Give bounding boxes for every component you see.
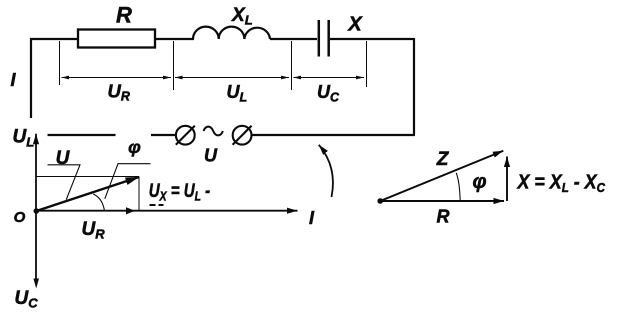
dimension UL	[175, 76, 289, 80]
svg-text:φ: φ	[472, 171, 486, 193]
svg-text:UC: UC	[317, 82, 340, 105]
tick at node B	[173, 41, 175, 90]
svg-text:UR: UR	[82, 219, 106, 242]
inductor XL	[193, 27, 270, 39]
curved annotation arrow	[319, 145, 333, 197]
dimension UR	[62, 76, 172, 80]
svg-text:I: I	[309, 208, 315, 228]
wire bottom left segment	[48, 134, 116, 136]
vector X (triangle)	[506, 157, 508, 202]
svg-text:φ: φ	[128, 137, 141, 157]
svg-text:XL: XL	[231, 5, 253, 28]
wire top-left horizontal	[30, 38, 78, 40]
tick at node A	[59, 41, 61, 85]
vector UR arrowhead	[126, 207, 135, 214]
source lamp left	[176, 126, 195, 145]
vector U	[36, 177, 139, 211]
wire left vertical	[30, 38, 32, 118]
wire source left stub	[151, 134, 176, 136]
phasor axis UC down arrow	[33, 279, 39, 289]
wire right vertical	[413, 38, 415, 135]
dimension UC	[294, 76, 365, 80]
wire bottom right segment	[252, 134, 415, 136]
vector Z (triangle)	[380, 151, 503, 201]
origin dot	[34, 208, 40, 214]
svg-text:X: X	[347, 14, 363, 36]
wire capacitor to right corner	[330, 38, 414, 40]
capacitor X plate left	[318, 20, 321, 57]
construction line vertical	[138, 177, 140, 211]
wire inductor to capacitor	[270, 38, 317, 40]
phasor axis UL vertical	[35, 134, 37, 280]
construction line horizontal	[36, 176, 139, 178]
source tilde	[204, 127, 223, 136]
svg-text:R: R	[116, 3, 132, 28]
vector R (triangle)	[380, 200, 504, 202]
tick at node C	[291, 41, 293, 90]
svg-text:O: O	[14, 209, 26, 226]
angle arc phi (phasor)	[93, 194, 104, 211]
triangle vertex dot	[377, 198, 383, 204]
angle arc phi (triangle)	[456, 173, 460, 201]
svg-text:U: U	[204, 146, 218, 166]
wire resistor to inductor	[155, 38, 194, 40]
svg-text:UR: UR	[108, 80, 130, 103]
capacitor X plate right	[327, 20, 330, 57]
svg-text:UC: UC	[15, 288, 39, 311]
svg-text:I: I	[10, 70, 16, 90]
svg-text:X = XL - XC: X = XL - XC	[517, 172, 606, 196]
svg-text:UL: UL	[13, 127, 35, 150]
svg-text:R: R	[437, 207, 450, 227]
svg-text:UL: UL	[227, 82, 248, 105]
dashes under UX	[150, 204, 164, 206]
svg-text:Z: Z	[436, 149, 450, 170]
svg-text:UX = UL -: UX = UL -	[149, 181, 211, 204]
source lamp right	[233, 126, 252, 145]
tick at node D	[366, 41, 368, 87]
svg-text:U: U	[56, 148, 71, 169]
phasor axis I horizontal	[36, 210, 298, 212]
resistor R	[78, 30, 155, 48]
